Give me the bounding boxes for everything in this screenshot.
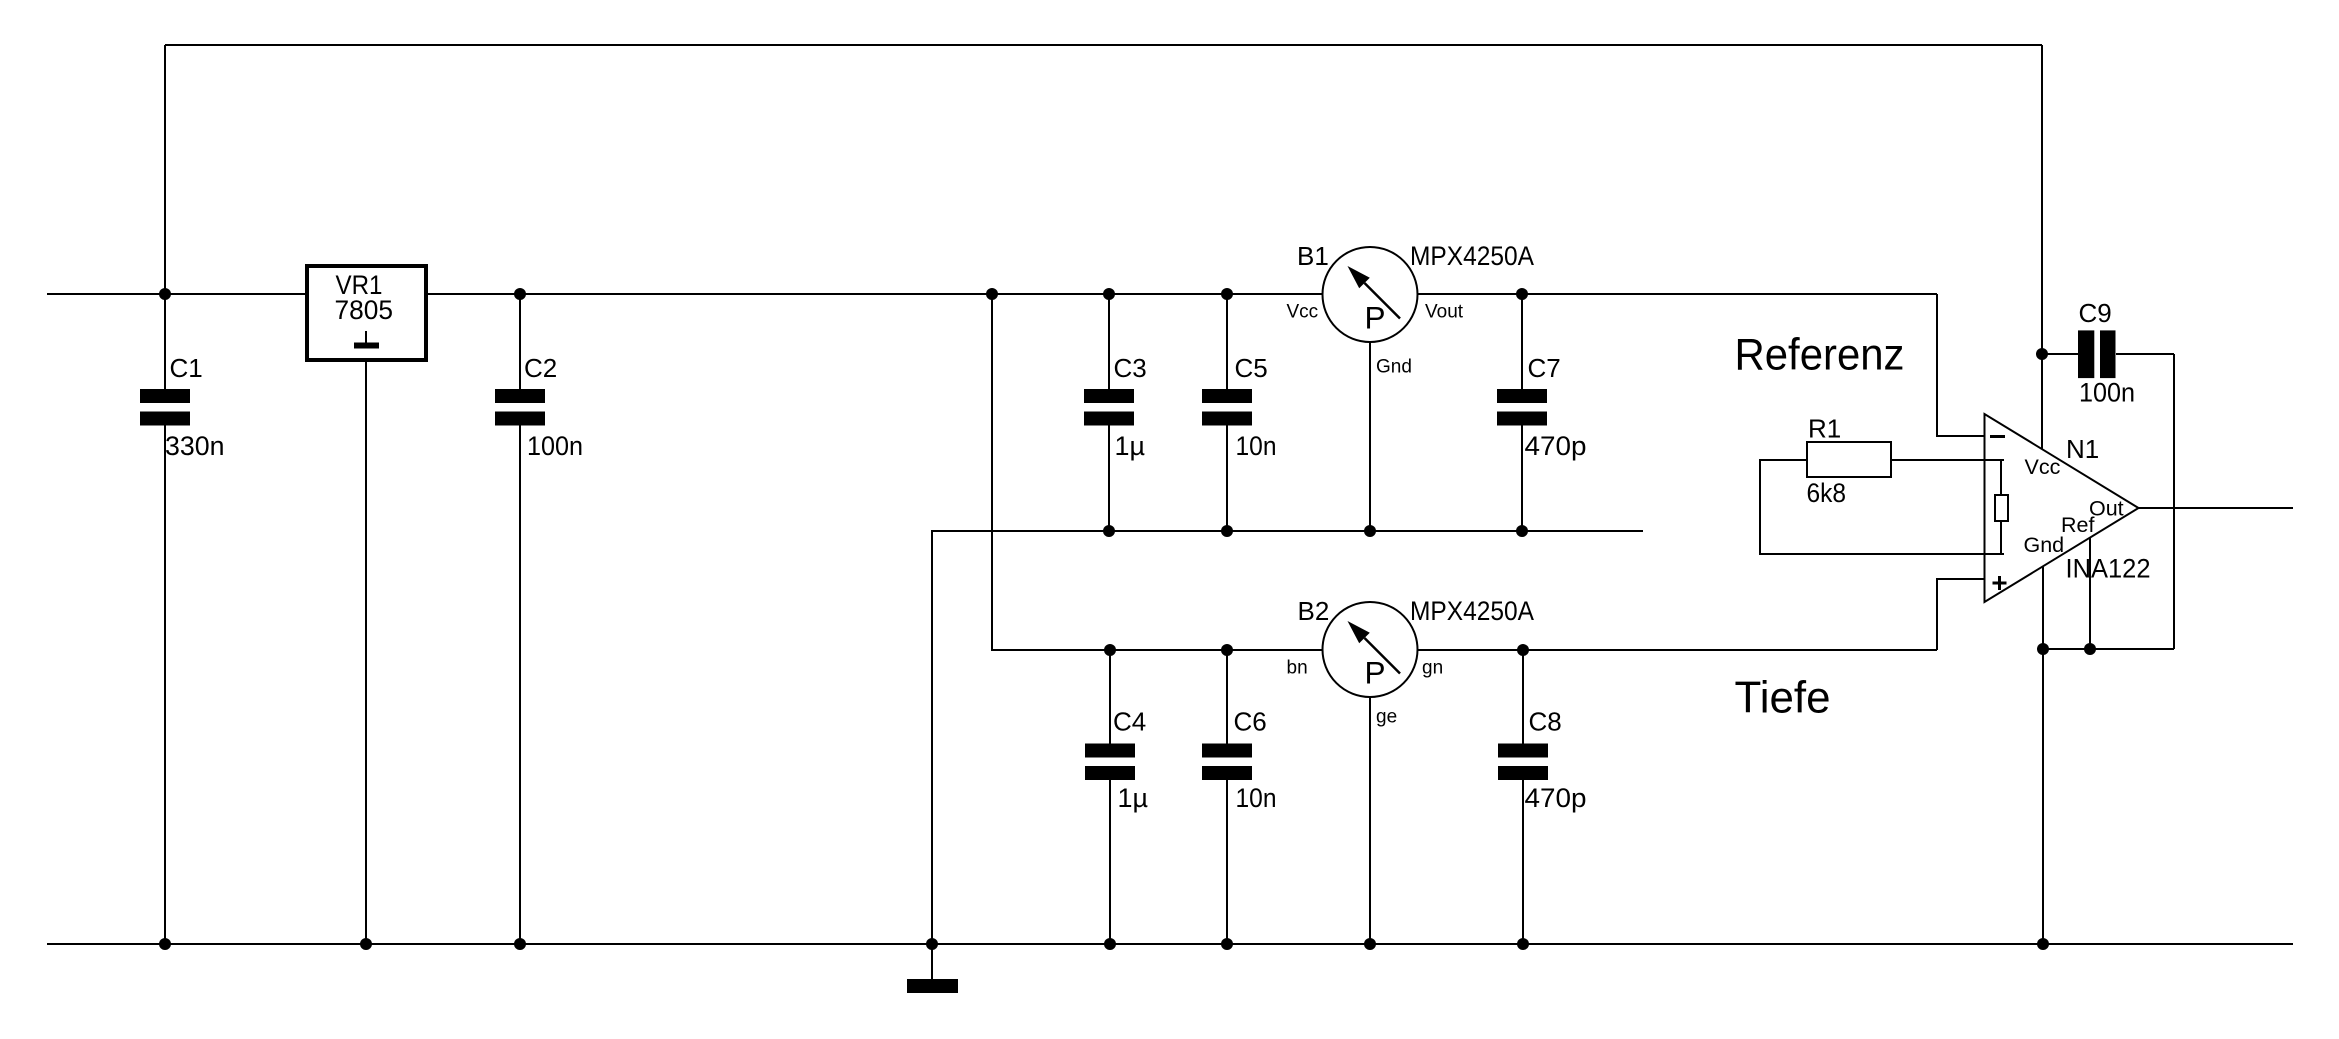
svg-text:100n: 100n [2079, 378, 2135, 408]
svg-text:Referenz: Referenz [1735, 331, 1905, 380]
capacitor C6 plates [1202, 744, 1252, 758]
wire drop to N1 minus input [1937, 294, 1984, 436]
svg-text:C4: C4 [1113, 707, 1146, 737]
VR1 ground tab symbol [365, 331, 367, 343]
svg-text:1µ: 1µ [1118, 783, 1149, 813]
node C4/B2 rail [1104, 644, 1116, 656]
node B2 ground [1364, 938, 1376, 950]
wire Vcc rail left segment [47, 293, 307, 295]
svg-text:ge: ge [1376, 707, 1397, 728]
N1 plus sign [1993, 582, 2007, 585]
svg-text:N1: N1 [2066, 434, 2099, 464]
svg-text:Gnd: Gnd [1376, 357, 1412, 378]
wire C3 leads [1108, 294, 1110, 531]
svg-text:7805: 7805 [335, 295, 394, 325]
svg-text:INA122: INA122 [2066, 554, 2151, 584]
node C9/Vcc [2036, 348, 2048, 360]
wire C1 leads [164, 294, 166, 944]
svg-text:MPX4250A: MPX4250A [1410, 596, 1534, 626]
capacitor C3 plates [1084, 389, 1134, 403]
wire Vcc rail middle segment [427, 293, 1323, 295]
svg-text:470p: 470p [1525, 431, 1587, 461]
resistor R1 body [1807, 442, 1891, 477]
svg-text:R1: R1 [1808, 414, 1841, 444]
wire N1 Gnd pin to ground rail [2042, 567, 2044, 944]
node C4 ground [1104, 938, 1116, 950]
node B1 Gnd bus [1364, 525, 1376, 537]
node C7 ground bus [1516, 525, 1528, 537]
svg-text:Vcc: Vcc [1287, 302, 1319, 323]
svg-text:1µ: 1µ [1115, 431, 1146, 461]
svg-text:C1: C1 [170, 353, 203, 383]
wire Vcc rail right segment [1417, 293, 1937, 295]
op-amp U1 INA122 triangle [1985, 414, 2139, 602]
node C3 ground bus [1103, 525, 1115, 537]
node VR1 ground [360, 938, 372, 950]
node N1 ground [2037, 938, 2049, 950]
node C6 ground [1221, 938, 1233, 950]
sensor B1 arrow [1365, 283, 1401, 319]
capacitor C1 plates [140, 389, 190, 403]
wire branch to B2 Vcc [992, 294, 1323, 650]
svg-text:330n: 330n [165, 431, 225, 461]
svg-text:Ref: Ref [2061, 513, 2094, 537]
svg-text:P: P [1365, 300, 1386, 336]
node C5/Vcc [1221, 288, 1233, 300]
wire B1 Gnd lead [1369, 342, 1371, 531]
svg-text:C7: C7 [1528, 353, 1561, 383]
wire left riser C1 node to top rail [164, 45, 166, 294]
svg-text:10n: 10n [1236, 431, 1277, 461]
wire R1 right lead to RG1 [1891, 459, 2004, 461]
wire right riser top rail to N1 Vcc [2041, 45, 2043, 449]
wire C6 leads [1226, 650, 1228, 944]
pressure sensor B2 circle [1323, 602, 1418, 697]
node C8 ground [1517, 938, 1529, 950]
sensor B2 arrow [1365, 638, 1401, 674]
node C1 ground [159, 938, 171, 950]
node bus ground [926, 938, 938, 950]
node C5 ground bus [1221, 525, 1233, 537]
capacitor C9 plates [2078, 330, 2094, 378]
node N1 Ref bus [2084, 643, 2096, 655]
wire C4 leads [1109, 650, 1111, 944]
wire C5 leads [1226, 294, 1228, 531]
svg-text:bn: bn [1287, 658, 1308, 679]
capacitor C7 plates [1497, 389, 1547, 403]
svg-text:C9: C9 [2079, 298, 2112, 328]
voltage regulator VR1 box [307, 266, 426, 360]
svg-text:Vcc: Vcc [2025, 455, 2061, 479]
wire R1 left lead [1760, 460, 2004, 554]
wire top rail [165, 44, 2042, 46]
resistor RG body inside N1 [1995, 495, 2008, 521]
svg-text:6k8: 6k8 [1807, 478, 1847, 508]
wire B2 Gnd lead [1369, 697, 1371, 944]
node B2 branch [986, 288, 998, 300]
svg-text:10n: 10n [1236, 783, 1277, 813]
svg-text:P: P [1365, 655, 1386, 691]
wire N1 output [2139, 507, 2294, 509]
wire C2 leads [519, 294, 521, 944]
node N1 Gnd bus [2037, 643, 2049, 655]
wire C9 right side drop [2173, 354, 2175, 649]
N1 minus sign [1990, 435, 2005, 438]
wire sensor ground bus [932, 531, 1643, 944]
svg-text:C2: C2 [524, 353, 557, 383]
svg-text:C3: C3 [1114, 353, 1147, 383]
capacitor C2 plates [495, 389, 545, 403]
svg-text:MPX4250A: MPX4250A [1410, 241, 1534, 271]
ground symbol bar [907, 979, 958, 993]
wire ground symbol stem [931, 944, 933, 979]
node C3/Vcc [1103, 288, 1115, 300]
wire N1 Ref pin [2089, 538, 2091, 649]
svg-text:C8: C8 [1529, 707, 1562, 737]
capacitor C8 plates [1498, 744, 1548, 758]
pressure sensor B1 circle [1323, 247, 1418, 342]
svg-text:gn: gn [1422, 658, 1443, 679]
svg-text:Tiefe: Tiefe [1735, 674, 1831, 723]
wire B2 rail right segment [1417, 649, 1937, 651]
node C6/B2 rail [1221, 644, 1233, 656]
wire VR1 ground stem [365, 360, 367, 944]
node C8/B2 rail [1517, 644, 1529, 656]
svg-text:100n: 100n [527, 431, 583, 461]
node C2 ground [514, 938, 526, 950]
node C2/Vcc [514, 288, 526, 300]
wire RG resistor leads inside N1 [2000, 460, 2002, 554]
wire analog ground bus under N1 [2043, 648, 2174, 650]
capacitor C5 plates [1202, 389, 1252, 403]
wire C9 right lead [2116, 353, 2174, 355]
wire C8 leads [1522, 650, 1524, 944]
svg-text:C5: C5 [1235, 353, 1268, 383]
svg-text:Vout: Vout [1425, 302, 1464, 323]
node C1/Vcc [159, 288, 171, 300]
svg-text:B1: B1 [1297, 241, 1329, 271]
wire C7 leads [1521, 294, 1523, 531]
svg-text:C6: C6 [1234, 707, 1267, 737]
svg-text:B2: B2 [1298, 596, 1330, 626]
junction dots top rail [159, 288, 2096, 950]
node C7/Vcc [1516, 288, 1528, 300]
wire ground bottom rail [47, 943, 2293, 945]
capacitor C4 plates [1085, 744, 1135, 758]
svg-text:470p: 470p [1525, 783, 1587, 813]
wire rise to N1 plus input [1937, 579, 1984, 650]
wire C9 left lead [2042, 353, 2078, 355]
svg-text:Gnd: Gnd [2024, 533, 2065, 557]
